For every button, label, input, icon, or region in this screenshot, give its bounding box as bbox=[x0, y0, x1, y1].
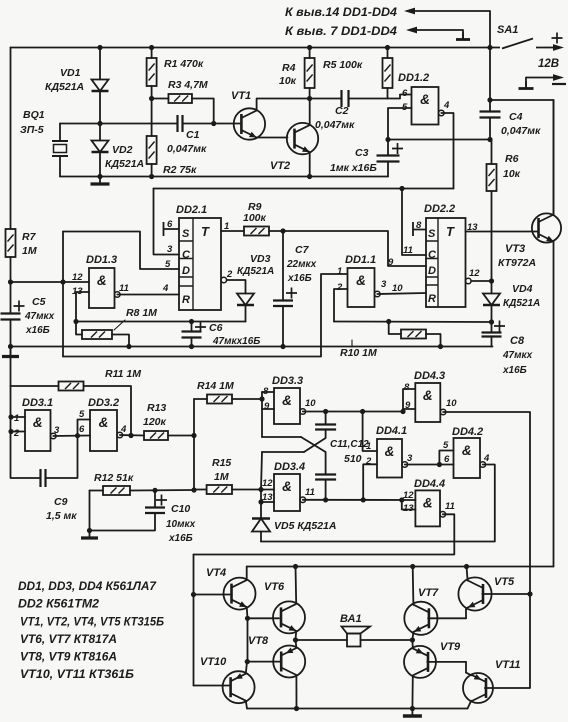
svg-text:К выв.14 DD1-DD4: К выв.14 DD1-DD4 bbox=[285, 7, 398, 19]
wire node to C2 bbox=[310, 98, 342, 100]
leader line of R10 label bbox=[351, 340, 353, 347]
wire DD3.3 output to DD4 inputs bbox=[303, 411, 403, 413]
svg-text:47мкх: 47мкх bbox=[502, 350, 533, 361]
ground at minus terminal bbox=[519, 82, 534, 89]
wire node to DD1.3 pin 12 bbox=[11, 281, 90, 283]
node: DD4.3 inputs bbox=[400, 409, 405, 414]
wire BQ1 to emitter rail bbox=[59, 156, 61, 177]
diode VD5 bbox=[252, 519, 270, 532]
node: VT5 collector on rail bbox=[464, 564, 469, 569]
node: VT2 emitter on rail bbox=[307, 174, 312, 179]
wire R15 to DD3.4 pin 12 bbox=[232, 489, 274, 491]
node: pin13 R8 C6 junction bbox=[73, 319, 78, 324]
wire VT11 emitter up bbox=[466, 673, 471, 676]
wire C11 cross diagonal down-left bbox=[304, 430, 326, 453]
wire R13 to node bbox=[168, 435, 194, 437]
plus of C7 bbox=[286, 288, 297, 299]
node: output left junction bbox=[293, 637, 298, 642]
svg-text:12: 12 bbox=[72, 272, 83, 283]
logic gate DD4.4 bbox=[415, 490, 445, 526]
wire R8 to ground rail bbox=[112, 335, 129, 347]
wire riser to DD4.1 pin 2 bbox=[363, 464, 377, 500]
capacitor C2 bbox=[342, 90, 349, 107]
capacitor C4 bbox=[480, 112, 501, 118]
wire: left vertical C-D feedback bbox=[62, 232, 64, 357]
wire VT9 emitter to output bbox=[411, 640, 413, 648]
svg-text:3: 3 bbox=[407, 453, 413, 464]
svg-text:C8: C8 bbox=[510, 335, 525, 347]
transistor VT8 bbox=[273, 646, 305, 678]
wire node to VD2 bbox=[99, 124, 101, 141]
wire to VT4 base bbox=[194, 594, 231, 596]
node: R10 left junction bbox=[386, 319, 391, 324]
node: VT4-VT10-VT8 junction bbox=[245, 659, 250, 664]
svg-text:1М: 1М bbox=[22, 245, 37, 257]
wire R2 to emitter rail bbox=[151, 164, 153, 177]
wire: DD1.1 pin2 R10 VD4 line bbox=[334, 321, 492, 324]
svg-text:DD1.2: DD1.2 bbox=[398, 72, 429, 84]
wire loop to DD4.4 pin 13 bbox=[402, 500, 416, 510]
node: VT9 ground junction bbox=[410, 706, 415, 711]
svg-text:R7: R7 bbox=[22, 231, 37, 243]
svg-text:10: 10 bbox=[305, 398, 316, 409]
wire node to C4 bottom bbox=[388, 139, 491, 141]
node: C12 bottom bbox=[323, 497, 328, 502]
svg-text:C5: C5 bbox=[32, 296, 46, 308]
wire DD4.2 output to VD5 line bbox=[261, 465, 495, 542]
node: DD4.2 pin5 jumper bbox=[437, 462, 442, 467]
svg-text:2: 2 bbox=[13, 428, 20, 439]
wire DD3.3 out to C11 bbox=[325, 412, 327, 425]
svg-text:х16Б: х16Б bbox=[502, 365, 527, 376]
wire riser to DD4.1 pin 1 bbox=[363, 412, 377, 452]
svg-text:1М: 1М bbox=[214, 471, 229, 483]
resistor R14 bbox=[207, 395, 232, 404]
node: R14 on bracket bbox=[259, 396, 264, 401]
svg-text:11: 11 bbox=[445, 501, 455, 512]
svg-text:&: & bbox=[282, 393, 292, 408]
wire down to BQ1 bbox=[59, 124, 61, 142]
wire R14 to DD3.3 inputs bbox=[232, 398, 262, 400]
svg-text:х16Б: х16Б bbox=[25, 325, 50, 336]
wire VT8 emitter to output bbox=[295, 640, 298, 648]
pin 6 tick of DD2.1 S input bbox=[164, 222, 180, 236]
wire to C6 bbox=[191, 322, 193, 332]
wire speaker to output right junction bbox=[361, 639, 413, 641]
wire R11 left bbox=[11, 385, 59, 387]
node: VT4 base bbox=[191, 592, 196, 597]
node: R2 on emitter rail bbox=[149, 174, 154, 179]
wire DD1.3 output to DD2.1 R input bbox=[117, 294, 179, 296]
switch SA1 bbox=[490, 39, 545, 49]
svg-text:2: 2 bbox=[226, 269, 233, 280]
wire VT9 base right bbox=[427, 661, 466, 663]
wire DD3.3 input bracket down bbox=[261, 392, 263, 437]
ground at pin-7 arrow bbox=[456, 33, 470, 40]
node: R4 top on rail bbox=[307, 45, 312, 50]
transistor VT2 bbox=[287, 123, 318, 154]
wire DD1.2 pin5 down to C3 node bbox=[388, 108, 412, 140]
wire C2 to DD1.2 pin 6 bbox=[349, 95, 412, 99]
logic gate DD1.1 bbox=[348, 268, 381, 307]
svg-text:3: 3 bbox=[381, 279, 387, 290]
wire VT5 collector to rail bbox=[467, 567, 468, 581]
svg-text:R: R bbox=[182, 294, 190, 306]
wire to C12 bbox=[325, 452, 327, 475]
wire VT11 collector to bottom rail bbox=[468, 701, 472, 709]
wire VT10 collector to bottom rail bbox=[246, 701, 247, 709]
svg-text:R: R bbox=[428, 293, 436, 305]
plus sign of supply bbox=[552, 33, 563, 44]
wire supply down to C4 bbox=[489, 48, 491, 112]
svg-text:DD2.2: DD2.2 bbox=[424, 203, 455, 215]
wire VT4 collector to amp rail bbox=[246, 567, 248, 581]
svg-text:2: 2 bbox=[336, 282, 343, 293]
capacitor C7 bbox=[273, 301, 293, 307]
resistor R10 bbox=[401, 330, 426, 339]
svg-text:C1: C1 bbox=[186, 129, 200, 141]
wire C6 to ground rail bbox=[191, 338, 193, 347]
svg-text:VD1: VD1 bbox=[60, 67, 81, 79]
ground below VD2 bbox=[91, 177, 110, 184]
wire R4 to node bbox=[309, 88, 311, 99]
svg-text:VD4: VD4 bbox=[512, 283, 533, 295]
wire: amplifier +12V top rail bbox=[247, 566, 554, 568]
svg-text:47мкх16Б: 47мкх16Б bbox=[212, 336, 260, 347]
wire VT6 collector to rail bbox=[295, 567, 298, 604]
node: C9 pin5 junction bbox=[75, 433, 80, 438]
svg-text:DD2 К561ТМ2: DD2 К561ТМ2 bbox=[18, 599, 100, 611]
node: C4 top border branch bbox=[487, 97, 492, 102]
wire: C6 top line bbox=[76, 321, 246, 323]
wire VT3 emitter down right border bbox=[553, 241, 555, 566]
svg-text:VT1, VT2, VT4, VT5 КТ315Б: VT1, VT2, VT4, VT5 КТ315Б bbox=[20, 617, 164, 629]
svg-text:VT6, VT7 КТ817А: VT6, VT7 КТ817А bbox=[20, 634, 117, 646]
wire node to C3 top bbox=[387, 140, 389, 156]
svg-text:VT5: VT5 bbox=[494, 576, 515, 588]
wire base drive left vertical bbox=[193, 555, 195, 686]
node: DD3.1 pin1 bbox=[8, 414, 13, 419]
svg-text:C10: C10 bbox=[171, 503, 190, 515]
transistor VT9 bbox=[404, 646, 436, 678]
svg-text:12: 12 bbox=[469, 268, 480, 279]
wire R7 to C5 bbox=[10, 257, 12, 314]
node: VD2 on emitter rail bbox=[97, 174, 102, 179]
svg-text:D: D bbox=[182, 265, 190, 277]
svg-text:4: 4 bbox=[483, 453, 490, 464]
node: C7 on ground rail bbox=[280, 344, 285, 349]
svg-text:&: & bbox=[462, 443, 472, 458]
wire VT1 emitter to VT2 base bbox=[257, 137, 288, 139]
wire VD1 to node bbox=[99, 91, 101, 124]
svg-text:DD4.1: DD4.1 bbox=[376, 425, 407, 437]
wire R12 to R15 riser bbox=[130, 489, 194, 492]
svg-text:1мк х16Б: 1мк х16Б bbox=[330, 162, 377, 174]
wire VT9 collector to bottom rail bbox=[411, 675, 413, 708]
wire: clock rail from DD1.2 output bbox=[154, 188, 454, 190]
wire: top-section ground rail bbox=[11, 346, 493, 348]
resistor R8 bbox=[82, 330, 112, 339]
arrow to pin 7 of DD1-DD4 bbox=[406, 27, 463, 34]
svg-text:9: 9 bbox=[264, 401, 270, 412]
wire R1 to R2 bbox=[151, 86, 153, 136]
diode VD4 bbox=[483, 294, 500, 306]
node: R3 on base line bbox=[211, 121, 216, 126]
svg-text:1: 1 bbox=[337, 266, 342, 277]
wire stub to DD3.4 pin 13 bbox=[261, 501, 274, 503]
wire node to R6 bbox=[491, 140, 493, 165]
svg-text:&: & bbox=[33, 415, 43, 430]
resistor R5 bbox=[383, 58, 393, 88]
svg-text:DD1.3: DD1.3 bbox=[86, 254, 117, 266]
wire VT3 collector up right border bbox=[553, 100, 555, 215]
node: R5 top on rail bbox=[385, 45, 390, 50]
svg-text:DD3.4: DD3.4 bbox=[274, 461, 305, 473]
svg-text:ЗП-5: ЗП-5 bbox=[20, 124, 44, 136]
node: collectors R4 C2 junction bbox=[307, 96, 312, 101]
svg-text:47мкх: 47мкх bbox=[24, 311, 55, 322]
resistor R4 bbox=[305, 58, 315, 88]
wire node to C1 bbox=[100, 123, 178, 125]
wire R9 to DD2.2 D input bbox=[269, 231, 426, 266]
svg-text:К выв. 7 DD1-DD4: К выв. 7 DD1-DD4 bbox=[285, 26, 398, 38]
svg-text:BQ1: BQ1 bbox=[23, 109, 45, 121]
node: R8 on ground rail bbox=[126, 344, 131, 349]
wire VD2 to emitter rail bbox=[99, 152, 101, 177]
svg-text:DD4.4: DD4.4 bbox=[414, 478, 445, 490]
node: R7-C5-DD1.3 junction bbox=[8, 279, 13, 284]
wire C1 to VT1 base bbox=[183, 123, 242, 125]
wire R12 left down bbox=[89, 491, 91, 531]
svg-text:&: & bbox=[97, 273, 107, 288]
pin 8 tick of DD2.2 S input bbox=[413, 222, 426, 236]
resistor R11 bbox=[59, 382, 84, 391]
wire VT6 emitter to output bbox=[295, 631, 298, 640]
svg-text:C: C bbox=[182, 249, 191, 261]
minus sign of supply bbox=[552, 83, 566, 85]
wire jumper to DD4.2 pin 5 bbox=[439, 451, 453, 465]
wire jumper to DD3.2 pin 5 bbox=[78, 420, 91, 436]
svg-text:R6: R6 bbox=[505, 153, 519, 165]
svg-text:DD2.1: DD2.1 bbox=[176, 204, 207, 216]
svg-text:S: S bbox=[182, 228, 190, 240]
svg-text:VT8: VT8 bbox=[248, 635, 269, 647]
svg-text:R11 1М: R11 1М bbox=[105, 368, 141, 380]
svg-text:КД521А: КД521А bbox=[105, 158, 144, 170]
svg-text:VT3: VT3 bbox=[505, 243, 525, 255]
wire R11 right down to out node bbox=[84, 386, 131, 436]
svg-text:VT1: VT1 bbox=[231, 90, 251, 102]
svg-text:SA1: SA1 bbox=[497, 24, 518, 36]
plus of C5 bbox=[14, 301, 25, 312]
wire rail to VD1 bbox=[99, 48, 101, 80]
wire bracket to DD4.3 pin 8 bbox=[403, 389, 415, 412]
svg-text:R13: R13 bbox=[147, 402, 166, 414]
wire VD5 to feedback wire bbox=[260, 532, 262, 542]
svg-text:5: 5 bbox=[443, 440, 449, 451]
wire node down to C7 bbox=[282, 231, 284, 301]
svg-text:C: C bbox=[428, 249, 437, 261]
svg-text:VT11: VT11 bbox=[495, 659, 520, 671]
svg-text:0,047мк: 0,047мк bbox=[315, 119, 355, 131]
transistor VT5 bbox=[458, 577, 491, 610]
svg-text:C4: C4 bbox=[509, 111, 523, 123]
logic gate DD4.3 bbox=[415, 383, 446, 422]
svg-text:R12 51к: R12 51к bbox=[94, 472, 134, 484]
svg-text:VT4: VT4 bbox=[206, 567, 226, 579]
wire DD1.2 output down to clock rail bbox=[441, 113, 453, 189]
wire up to VT5 emitter bbox=[465, 609, 467, 618]
wire: left supply border down to R7 bbox=[10, 48, 12, 230]
svg-text:VT10, VT11 КТ361Б: VT10, VT11 КТ361Б bbox=[20, 669, 134, 681]
wire: bottom ground rail bbox=[247, 708, 468, 710]
node: C4-R6 junction bbox=[487, 137, 492, 142]
logic gate DD1.2 bbox=[412, 87, 445, 125]
resistor R7 bbox=[6, 229, 16, 257]
transistor VT6 bbox=[273, 601, 305, 633]
svg-text:S: S bbox=[428, 228, 436, 240]
flip-flop DD2.2 bbox=[426, 218, 471, 307]
wire: output line to speaker bbox=[296, 639, 348, 641]
wire to right border down to VT3 collector bbox=[490, 100, 554, 214]
wire node to R10 bbox=[389, 322, 401, 335]
svg-text:R14 1М: R14 1М bbox=[197, 380, 234, 392]
svg-text:DD1, DD3, DD4 К561ЛА7: DD1, DD3, DD4 К561ЛА7 bbox=[18, 581, 157, 593]
svg-text:C7: C7 bbox=[295, 244, 310, 256]
node: VT7 collector on rail bbox=[410, 564, 415, 569]
wire VD4 to C8 node bbox=[491, 305, 493, 322]
svg-text:2: 2 bbox=[365, 456, 372, 467]
wire C8 to ground rail end bbox=[491, 337, 493, 347]
logic gate DD1.3 bbox=[89, 268, 120, 308]
diode VD3 bbox=[237, 294, 254, 306]
wire DD1.1 output to DD2.2 R input bbox=[377, 293, 426, 294]
svg-text:11: 11 bbox=[403, 245, 413, 256]
wire riser R14-R15 bbox=[193, 399, 195, 490]
wire minus terminal down bbox=[525, 78, 527, 87]
node: left vertical on pin12 wire bbox=[60, 279, 65, 284]
wire to R3 bbox=[152, 98, 169, 100]
svg-text:DD4.2: DD4.2 bbox=[452, 426, 483, 438]
resistor R6 bbox=[487, 164, 497, 191]
node: DD4.4 inputs bbox=[399, 497, 404, 502]
ground of amplifier bbox=[403, 709, 422, 716]
svg-text:R4: R4 bbox=[282, 62, 296, 74]
svg-text:VD5 КД521А: VD5 КД521А bbox=[274, 520, 336, 532]
leader line of R8 label bbox=[114, 320, 125, 330]
wire DD4.1 out to DD4.2 bbox=[405, 464, 454, 466]
logic gate DD3.2 bbox=[90, 410, 123, 451]
transistor VT4 bbox=[224, 578, 256, 610]
svg-text:8: 8 bbox=[404, 382, 410, 393]
svg-text:10мкх: 10мкх bbox=[166, 519, 196, 530]
plus of C6 bbox=[195, 322, 206, 333]
svg-text:DD3.3: DD3.3 bbox=[272, 375, 303, 387]
wire VT7 base right bbox=[428, 617, 466, 619]
wire DD4.3 output down to VT5 VT11 bases bbox=[443, 412, 530, 688]
svg-text:VD2: VD2 bbox=[112, 144, 133, 156]
svg-text:22мкх: 22мкх bbox=[286, 259, 317, 270]
svg-text:&: & bbox=[423, 495, 433, 510]
node: VD4 C8 junction bbox=[489, 319, 494, 324]
wire left down to C9 bbox=[11, 386, 41, 478]
resistor R9 bbox=[244, 227, 269, 236]
svg-text:DD3.2: DD3.2 bbox=[88, 397, 119, 409]
svg-text:&: & bbox=[385, 444, 395, 459]
svg-text:0,047мк: 0,047мк bbox=[167, 143, 207, 155]
wire DD2.2 pin13 to VT3 base bbox=[466, 231, 538, 233]
wire to DD3.1 pin 2 bbox=[11, 431, 25, 433]
svg-text:11: 11 bbox=[305, 487, 315, 498]
svg-text:4: 4 bbox=[443, 100, 450, 111]
resistor R3 bbox=[168, 94, 192, 103]
transistor VT10 bbox=[223, 671, 255, 703]
transistor VT3 bbox=[532, 213, 561, 242]
wire to R14 bbox=[194, 398, 207, 400]
wire rail to R1 bbox=[151, 48, 153, 59]
wire to DD4.3 pin 9 bbox=[403, 408, 415, 410]
ground below C5 bbox=[2, 350, 19, 357]
svg-text:х16Б: х16Б bbox=[287, 273, 312, 284]
node: VD1-VD2-BQ1 junction bbox=[97, 121, 102, 126]
arrow: negative terminal bbox=[526, 74, 564, 81]
node: R1 top on rail bbox=[149, 45, 154, 50]
resistor R12 bbox=[103, 486, 130, 495]
svg-text:VT6: VT6 bbox=[264, 581, 285, 593]
node: SA1 supply junction bbox=[487, 45, 492, 50]
node: C11 top bbox=[323, 409, 328, 414]
wire to DD3.3 pin 9 bbox=[262, 408, 274, 410]
svg-text:12: 12 bbox=[262, 478, 273, 489]
plus of C8 bbox=[494, 321, 505, 332]
svg-text:8: 8 bbox=[416, 220, 422, 231]
resistor R2 bbox=[147, 136, 157, 164]
wire DD3.4 output to DD4.4 bbox=[303, 499, 416, 501]
node: C6 on ground rail bbox=[189, 344, 194, 349]
diode VD1 bbox=[92, 80, 109, 92]
wire from arrow down to +rail bbox=[489, 11, 491, 48]
svg-text:6: 6 bbox=[402, 88, 408, 99]
wire DD4.4 output to VT4 VT10 bases bbox=[194, 514, 455, 554]
node: VT6 collector on rail bbox=[293, 564, 298, 569]
node: VT5 base on drive line bbox=[527, 591, 532, 596]
diode VD2 bbox=[92, 141, 109, 153]
wire clock rail to DD2.1 C input bbox=[154, 189, 180, 255]
node: DD3.4 pin13 stub bbox=[258, 499, 263, 504]
svg-text:3: 3 bbox=[167, 244, 173, 255]
capacitor C3 plates bbox=[377, 156, 400, 162]
wire: top supply rail bbox=[11, 47, 491, 49]
wire node down to VD5 bbox=[260, 490, 262, 519]
svg-text:VT2: VT2 bbox=[270, 160, 290, 172]
wire: feedback to DD1.1 pin 1 bbox=[63, 274, 348, 357]
wire C10 bottom to ground wire bbox=[90, 513, 156, 531]
node: DD4.1 pin2 riser bbox=[361, 497, 366, 502]
plus of C3 bbox=[392, 143, 403, 154]
svg-text:&: & bbox=[282, 479, 292, 494]
svg-text:КТ972А: КТ972А bbox=[498, 257, 536, 269]
wire DD3.2 out to R13 bbox=[120, 434, 144, 437]
svg-text:&: & bbox=[99, 415, 109, 430]
crystal BQ1 bbox=[52, 141, 68, 156]
wire node to R8 bbox=[76, 322, 82, 335]
logic gate DD4.2 bbox=[454, 438, 486, 478]
wire cross arm down to pin12 node bbox=[261, 452, 262, 490]
wire DD1.1 pin2 loop down bbox=[334, 289, 348, 322]
node: C6 top bbox=[189, 319, 194, 324]
svg-text:C2: C2 bbox=[335, 105, 349, 117]
svg-text:C3: C3 bbox=[355, 147, 369, 159]
